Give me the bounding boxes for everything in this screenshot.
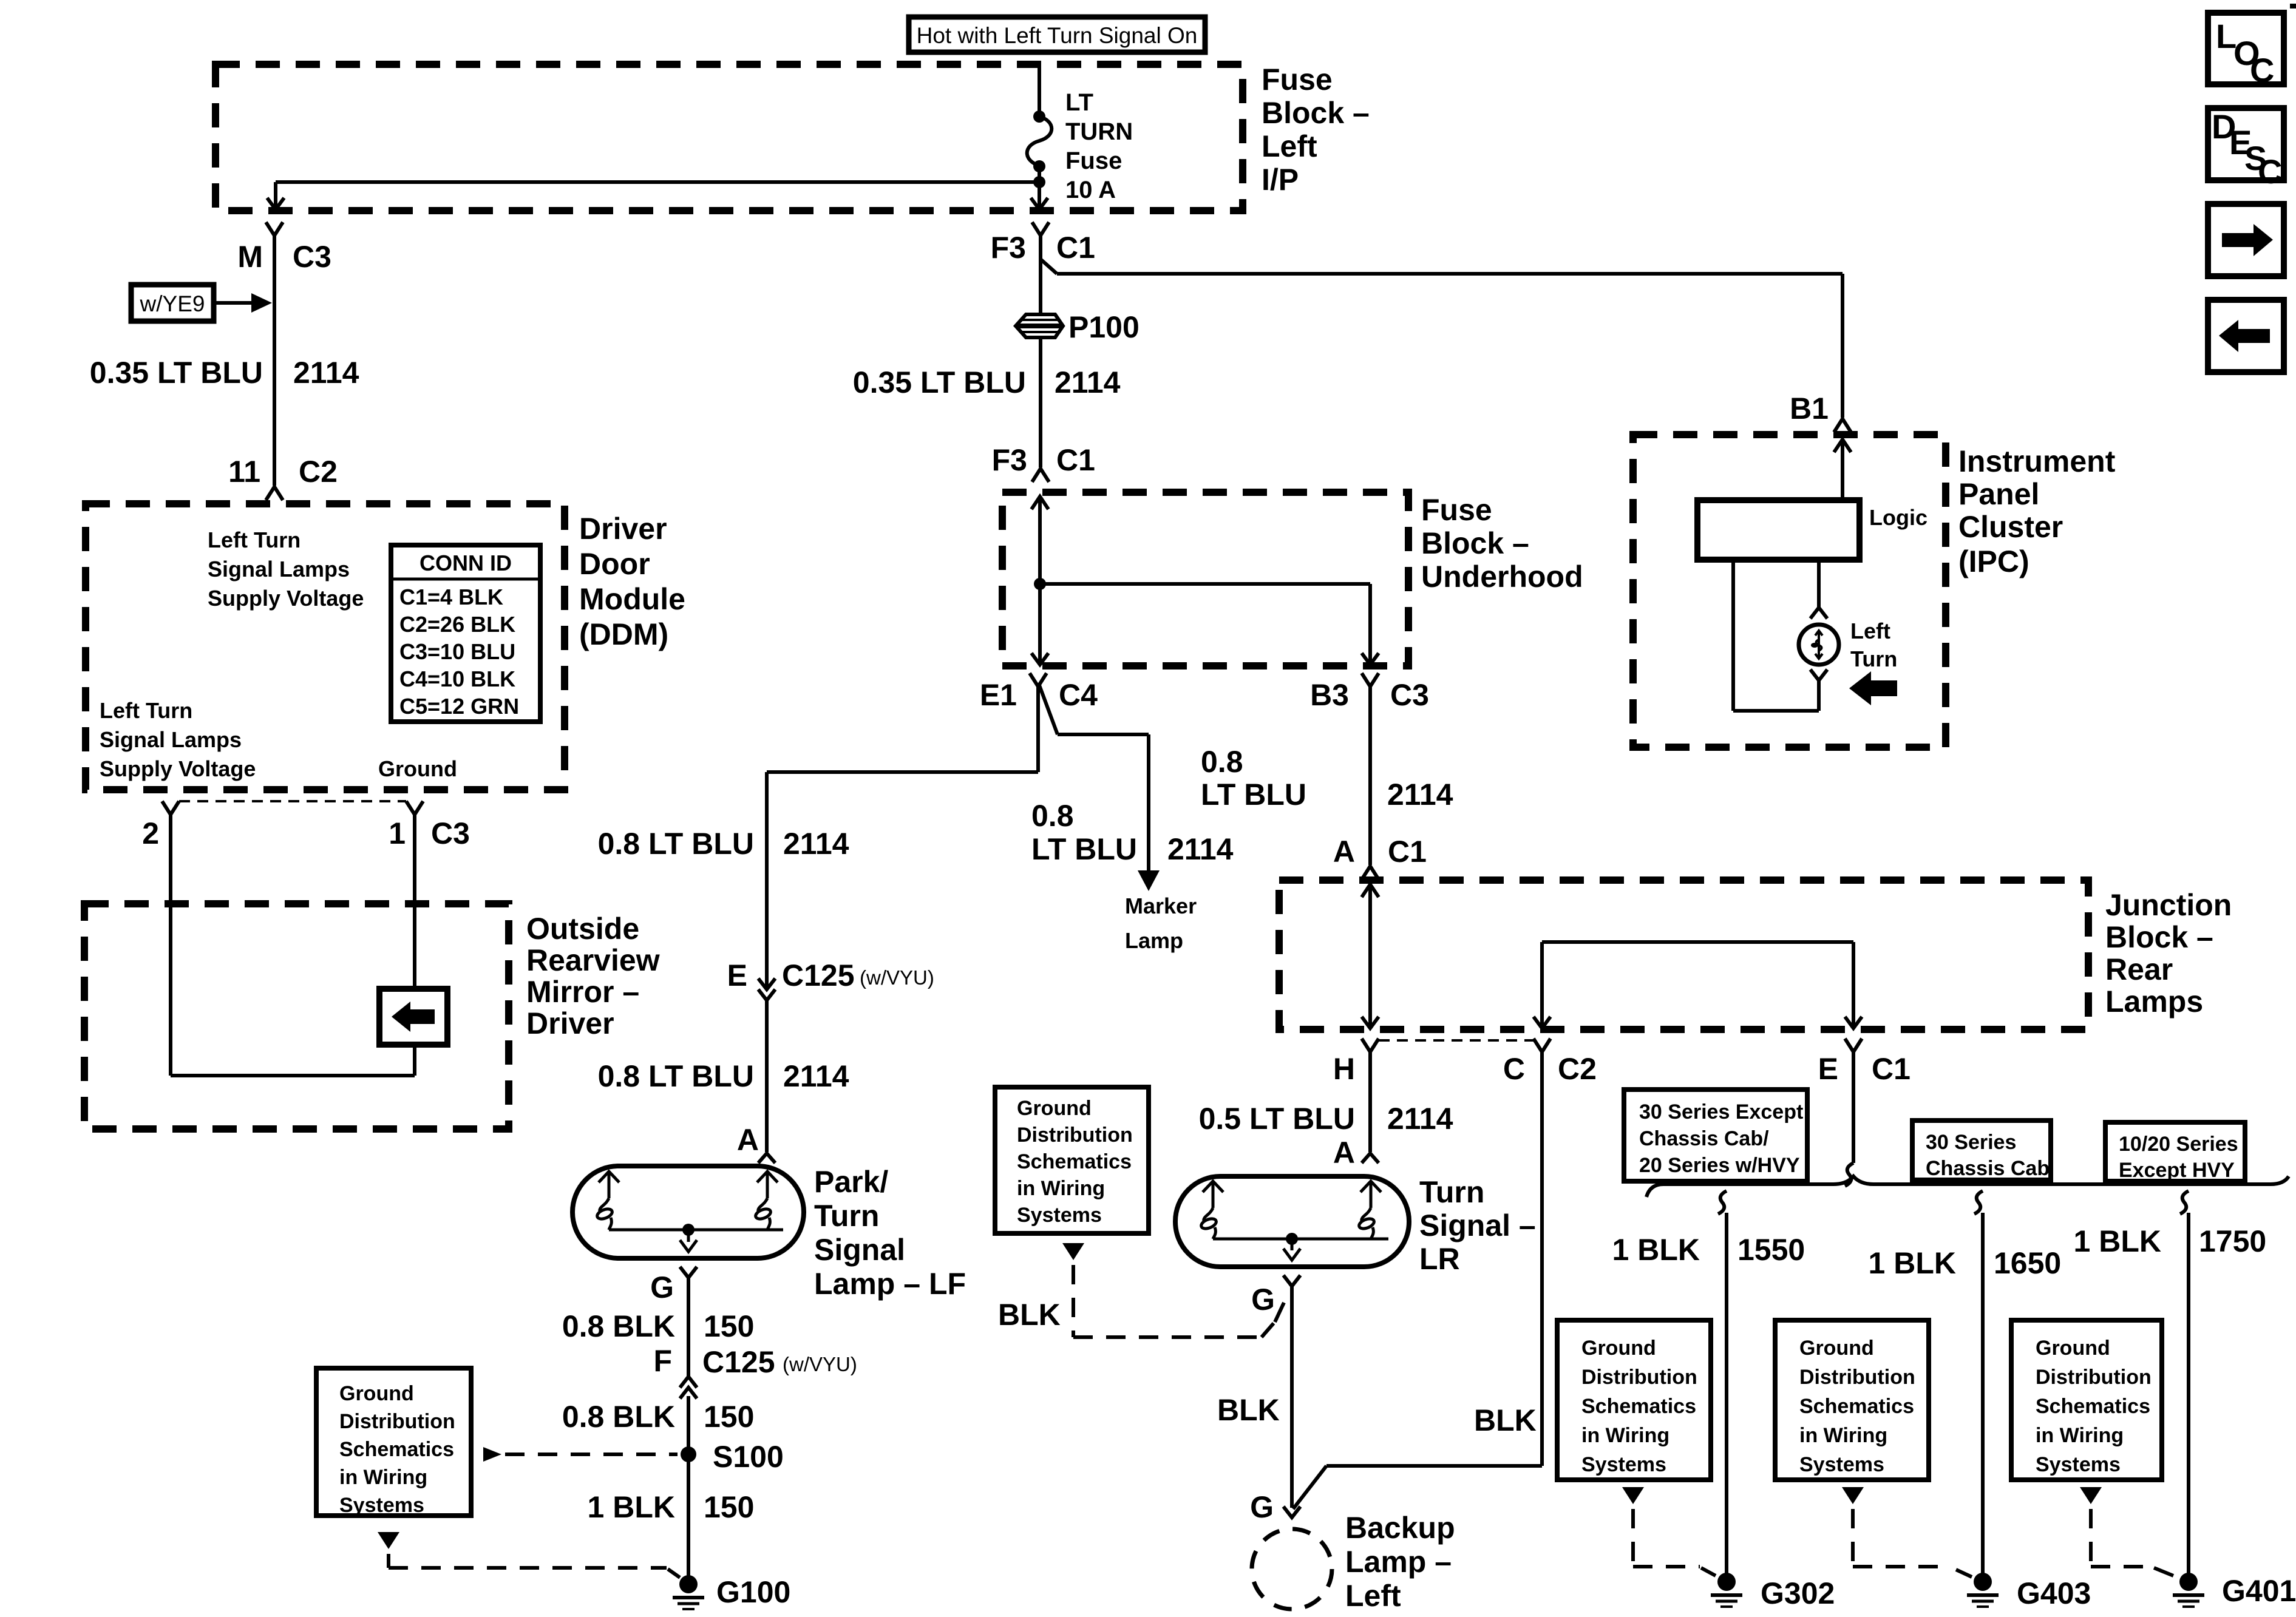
svg-text:Systems: Systems: [339, 1494, 424, 1517]
svg-text:Chassis Cab/: Chassis Cab/: [1639, 1127, 1769, 1150]
svg-text:C1: C1: [1388, 835, 1427, 869]
wire label 0.8 LT BLU 2114 (LF branch upper): [598, 827, 849, 861]
svg-text:Underhood: Underhood: [1421, 560, 1583, 594]
splice S100: [681, 1440, 784, 1474]
label Turn Signal - LR: [1419, 1175, 1536, 1276]
connector A at LF lamp: [737, 1123, 775, 1163]
wire branch to marker lamp: [1039, 685, 1149, 870]
svg-text:C125: C125: [702, 1345, 775, 1379]
svg-text:S100: S100: [713, 1440, 784, 1474]
park/turn signal lamp LF: [572, 1166, 804, 1258]
backup lamp dashed circle: [1252, 1529, 1332, 1609]
svg-text:Distribution: Distribution: [1581, 1366, 1697, 1389]
svg-text:Chassis Cab: Chassis Cab: [1926, 1157, 2050, 1180]
wire from Hot box into fuse: [1038, 64, 1041, 115]
connector F3 C1 below fuse block: [991, 222, 1095, 265]
svg-text:1: 1: [389, 816, 406, 850]
svg-text:10 A: 10 A: [1065, 177, 1116, 203]
svg-text:Rear: Rear: [2105, 952, 2173, 986]
svg-text:150: 150: [704, 1490, 754, 1524]
svg-text:C2=26 BLK: C2=26 BLK: [399, 612, 515, 637]
fuse block underhood dashed box: [1002, 492, 1408, 666]
svg-text:Signal Lamps: Signal Lamps: [100, 727, 242, 752]
thin dashed link between connectors 2 and 1: [179, 800, 406, 802]
connector E C125 (w/VYU): [727, 958, 934, 1000]
driver door module dashed box: [86, 504, 565, 790]
connector H: [1333, 1039, 1379, 1086]
svg-text:Distribution: Distribution: [339, 1410, 455, 1433]
svg-text:Marker: Marker: [1125, 893, 1197, 918]
ground distribution ref box (G403): [1775, 1320, 1929, 1480]
connector G below LF lamp: [650, 1267, 697, 1304]
IPC left turn arrow icon: [1849, 671, 1897, 705]
svg-text:G100: G100: [716, 1575, 790, 1609]
wire label BLK (LR ground): [1217, 1393, 1280, 1427]
wire label BLK (C2 ground): [1474, 1403, 1537, 1437]
svg-text:in Wiring: in Wiring: [1799, 1424, 1887, 1447]
svg-text:Turn: Turn: [814, 1199, 879, 1233]
svg-text:(DDM): (DDM): [579, 617, 668, 651]
svg-text:G: G: [1250, 1490, 1274, 1524]
svg-text:0.35 LT BLU: 0.35 LT BLU: [853, 365, 1026, 399]
svg-text:Except HVY: Except HVY: [2119, 1159, 2235, 1182]
svg-text:C3: C3: [1390, 678, 1429, 712]
wire 1 C3 down through mirror: [413, 815, 416, 1076]
label Junction Block - Rear Lamps: [2105, 888, 2232, 1019]
svg-text:LT: LT: [1065, 89, 1093, 116]
wire label BLK (ref link): [998, 1298, 1061, 1332]
svg-text:Door: Door: [579, 547, 650, 581]
svg-text:Junction: Junction: [2105, 888, 2232, 922]
svg-text:Systems: Systems: [1799, 1453, 1884, 1476]
connector C C2: [1503, 1039, 1597, 1086]
sidebar LOC box: [2208, 13, 2284, 89]
svg-text:C: C: [2258, 152, 2282, 191]
svg-text:Backup: Backup: [1345, 1511, 1455, 1545]
connector B3 C3: [1310, 673, 1429, 712]
label Fuse Block - Underhood: [1421, 493, 1583, 594]
svg-text:Distribution: Distribution: [1799, 1366, 1915, 1389]
connector E1 C4: [980, 673, 1098, 712]
ground G403: [1967, 1573, 2091, 1610]
svg-text:Lamp: Lamp: [1125, 928, 1183, 953]
arrow to S100: [483, 1447, 678, 1462]
svg-text:B3: B3: [1310, 678, 1349, 712]
svg-text:BLK: BLK: [1474, 1403, 1537, 1437]
logic box U1: [1697, 500, 1927, 560]
svg-text:in Wiring: in Wiring: [1017, 1177, 1105, 1200]
arrow below G403 ref box: [1842, 1487, 1972, 1577]
svg-text:C3: C3: [293, 240, 331, 274]
svg-text:B1: B1: [1790, 392, 1829, 425]
svg-text:Ground: Ground: [378, 756, 457, 781]
CONN ID table: [391, 545, 540, 722]
svg-text:F3: F3: [991, 231, 1026, 265]
svg-text:F3: F3: [992, 443, 1027, 477]
ground distribution ref box (G401): [2011, 1320, 2162, 1480]
svg-text:Schematics: Schematics: [1581, 1395, 1696, 1418]
instrument panel cluster dashed box: [1633, 435, 1946, 747]
svg-text:C1: C1: [1872, 1052, 1911, 1086]
svg-text:Left: Left: [1262, 129, 1317, 163]
svg-text:2114: 2114: [1387, 778, 1453, 812]
svg-text:LT BLU: LT BLU: [1201, 778, 1306, 812]
svg-text:0.8 LT BLU: 0.8 LT BLU: [598, 1059, 754, 1093]
wire E1 C4 down, left, down to E C125: [767, 686, 1038, 988]
svg-text:CONN ID: CONN ID: [419, 551, 512, 575]
svg-text:C2: C2: [1558, 1052, 1597, 1086]
wire label 0.8 BLK 150 (lower): [562, 1400, 755, 1434]
ground G100: [673, 1575, 790, 1609]
ground G401: [2173, 1573, 2296, 1608]
svg-text:BLK: BLK: [998, 1298, 1061, 1332]
svg-text:I/P: I/P: [1262, 163, 1299, 197]
svg-text:30 Series Except: 30 Series Except: [1639, 1100, 1803, 1124]
svg-text:Ground: Ground: [339, 1382, 414, 1405]
svg-text:Panel: Panel: [1958, 477, 2039, 511]
svg-text:Fuse: Fuse: [1421, 493, 1492, 527]
sidebar right arrow box: [2208, 204, 2284, 276]
connector F3 C1 above underhood fuse block: [992, 443, 1095, 482]
wire label 1 BLK 150: [588, 1490, 755, 1524]
svg-text:G: G: [650, 1270, 674, 1304]
svg-text:Instrument: Instrument: [1958, 444, 2116, 478]
fuse block left I/P dashed box: [216, 64, 1243, 211]
svg-text:2114: 2114: [783, 827, 849, 861]
svg-text:Ground: Ground: [1581, 1337, 1656, 1360]
svg-text:Cluster: Cluster: [1958, 510, 2063, 544]
label Outside Rearview Mirror - Driver: [526, 912, 660, 1040]
svg-text:20 Series w/HVY: 20 Series w/HVY: [1639, 1154, 1800, 1177]
svg-text:w/YE9: w/YE9: [140, 291, 205, 316]
wire label 0.8 LT BLU 2114 (marker branch): [1031, 799, 1234, 866]
wire label 1 BLK 1650: [1869, 1246, 2062, 1280]
svg-text:1750: 1750: [2199, 1224, 2266, 1258]
svg-text:Block –: Block –: [1421, 526, 1529, 560]
svg-text:Left Turn: Left Turn: [208, 527, 301, 552]
wire B3 C3 down to A C1: [1368, 686, 1372, 865]
DDM pin label upper: Left Turn Signal Lamps Supply Voltage: [208, 527, 364, 611]
svg-text:Schematics: Schematics: [1017, 1150, 1132, 1173]
svg-text:2114: 2114: [1167, 832, 1234, 866]
svg-text:Rearview: Rearview: [526, 943, 660, 977]
svg-text:H: H: [1333, 1052, 1355, 1086]
svg-text:1 BLK: 1 BLK: [1612, 1233, 1700, 1267]
svg-text:2114: 2114: [1055, 365, 1121, 399]
svg-text:in Wiring: in Wiring: [2036, 1424, 2124, 1447]
variant label box 10/20 Series Except HVY: [2105, 1122, 2245, 1182]
svg-text:Signal Lamps: Signal Lamps: [208, 557, 350, 581]
svg-text:150: 150: [704, 1400, 754, 1434]
svg-text:M: M: [237, 240, 263, 274]
svg-text:Ground: Ground: [1799, 1337, 1874, 1360]
svg-text:BLK: BLK: [1217, 1393, 1280, 1427]
wire fuse output to left (to M C3): [267, 182, 1039, 209]
svg-text:E: E: [727, 958, 747, 992]
label Driver Door Module (DDM): [579, 512, 685, 651]
wire label 0.8 LT BLU 2114 (LF branch lower): [598, 1059, 849, 1093]
marker lamp off-page arrow: [1125, 870, 1197, 953]
wire H down to LR lamp: [1368, 1052, 1372, 1152]
wire to G401: [2180, 1191, 2189, 1573]
svg-text:TURN: TURN: [1065, 118, 1133, 145]
svg-text:P100: P100: [1068, 310, 1140, 344]
connector B1 at IPC: [1790, 392, 1851, 432]
svg-text:G403: G403: [2017, 1576, 2091, 1610]
svg-text:Lamp –: Lamp –: [1345, 1545, 1452, 1579]
svg-text:Outside: Outside: [526, 912, 639, 946]
left turn indicator lamp: [1799, 625, 1839, 665]
svg-text:Driver: Driver: [579, 512, 667, 546]
svg-text:Park/: Park/: [814, 1165, 888, 1199]
fuse LT TURN Fuse 10 A: [1027, 89, 1133, 207]
svg-text:10/20 Series: 10/20 Series: [2119, 1133, 2238, 1156]
brace bus line: [1646, 1176, 2289, 1197]
svg-text:C4=10 BLK: C4=10 BLK: [399, 666, 515, 691]
arrow into box bottom at F3: [1031, 198, 1048, 209]
svg-text:1650: 1650: [1994, 1246, 2061, 1280]
wire label 0.35 LT BLU 2114 (center): [853, 365, 1121, 399]
svg-text:Distribution: Distribution: [1017, 1124, 1133, 1147]
svg-text:G302: G302: [1761, 1576, 1835, 1610]
svg-text:Block –: Block –: [1262, 96, 1370, 130]
svg-text:(w/VYU): (w/VYU): [783, 1353, 857, 1375]
connector A C1 at junction block: [1333, 835, 1427, 880]
svg-text:Turn: Turn: [1419, 1175, 1484, 1209]
svg-text:in Wiring: in Wiring: [1581, 1424, 1669, 1447]
wire label 0.8 BLK 150 (upper): [562, 1309, 755, 1343]
connector M C3: [237, 222, 331, 274]
svg-text:Schematics: Schematics: [339, 1438, 454, 1461]
variant label box 30 Series Chassis Cab: [1912, 1120, 2051, 1180]
svg-text:A: A: [737, 1123, 759, 1157]
wire branch to IPC B1: [1041, 259, 1843, 418]
svg-text:Signal –: Signal –: [1419, 1209, 1536, 1242]
svg-text:C125: C125: [782, 958, 855, 992]
svg-text:G: G: [1251, 1283, 1275, 1317]
svg-text:2: 2: [142, 816, 159, 850]
svg-text:Distribution: Distribution: [2036, 1366, 2152, 1389]
junction block internal wires: [1362, 884, 1862, 1028]
w/YE9 reference box: [131, 285, 272, 321]
svg-text:Systems: Systems: [2036, 1453, 2121, 1476]
label Backup Lamp - Left: [1345, 1511, 1455, 1613]
label Park/Turn Signal Lamp - LF: [814, 1165, 966, 1301]
svg-text:in Wiring: in Wiring: [339, 1466, 427, 1489]
svg-text:Logic: Logic: [1869, 505, 1927, 530]
svg-text:0.8 BLK: 0.8 BLK: [562, 1400, 675, 1434]
svg-text:0.5 LT BLU: 0.5 LT BLU: [1199, 1102, 1355, 1136]
connector E C1: [1818, 1039, 1911, 1086]
svg-text:Driver: Driver: [526, 1006, 614, 1040]
svg-text:2114: 2114: [1387, 1102, 1453, 1136]
svg-text:Systems: Systems: [1017, 1204, 1102, 1227]
header box "Hot with Left Turn Signal On": [909, 17, 1205, 52]
svg-text:0.8: 0.8: [1031, 799, 1074, 833]
wire label 0.35 LT BLU 2114 (left): [90, 356, 359, 390]
svg-text:C5=12 GRN: C5=12 GRN: [399, 694, 519, 719]
svg-text:11: 11: [228, 455, 260, 489]
svg-text:C3: C3: [431, 816, 470, 850]
svg-text:C: C: [2250, 51, 2274, 89]
svg-text:Schematics: Schematics: [1799, 1395, 1914, 1418]
underhood internal bus: [1031, 497, 1379, 665]
svg-text:Turn: Turn: [1850, 646, 1897, 671]
connector F C125 (w/VYU): [653, 1344, 857, 1398]
svg-text:Left Turn: Left Turn: [100, 698, 192, 723]
svg-text:C1: C1: [1056, 443, 1095, 477]
svg-text:Systems: Systems: [1581, 1453, 1666, 1476]
svg-text:Signal: Signal: [814, 1233, 905, 1267]
indicator lamp socket chevrons: [1810, 608, 1827, 680]
wire label 0.8 LT BLU 2114 (B3 branch): [1201, 745, 1453, 812]
DDM pin label Ground: [378, 756, 457, 781]
page corner mark: [2290, 4, 2296, 8]
svg-text:0.8: 0.8: [1201, 745, 1243, 779]
turn signal lamp LR: [1175, 1176, 1409, 1267]
svg-text:(w/VYU): (w/VYU): [860, 966, 934, 989]
svg-text:Hot with Left Turn Signal On: Hot with Left Turn Signal On: [917, 23, 1198, 48]
svg-text:A: A: [1333, 835, 1355, 869]
sidebar left arrow box: [2208, 300, 2284, 372]
svg-text:0.8 BLK: 0.8 BLK: [562, 1309, 675, 1343]
svg-text:1 BLK: 1 BLK: [2074, 1224, 2161, 1258]
arrow below G401 ref box: [2080, 1487, 2173, 1576]
svg-text:G401: G401: [2222, 1574, 2296, 1608]
svg-text:30 Series: 30 Series: [1926, 1131, 2016, 1154]
wire E C1 down to brace: [1845, 1052, 1853, 1186]
DDM pin label lower: Left Turn Signal Lamps Supply Voltage: [100, 698, 256, 781]
svg-text:Ground: Ground: [2036, 1337, 2110, 1360]
ground distribution ref box (G302): [1557, 1320, 1711, 1480]
wire C125 down to LF lamp: [765, 1000, 769, 1152]
svg-text:A: A: [1333, 1136, 1355, 1170]
svg-text:Supply Voltage: Supply Voltage: [208, 586, 364, 611]
svg-text:0.35 LT BLU: 0.35 LT BLU: [90, 356, 263, 390]
svg-text:C4: C4: [1059, 678, 1098, 712]
svg-text:(IPC): (IPC): [1958, 544, 2029, 578]
junction block rear lamps dashed box: [1279, 880, 2088, 1029]
wire M C3 down to 11 C2: [273, 236, 276, 486]
IPC internal loop wiring: [1733, 560, 1819, 711]
variant label box 30 Series Except Chassis Cab / 20 Series w/HVY: [1624, 1090, 1807, 1181]
svg-text:0.8 LT BLU: 0.8 LT BLU: [598, 827, 754, 861]
label Left Turn: [1850, 619, 1897, 671]
svg-text:C: C: [1503, 1052, 1525, 1086]
wire to G403: [1974, 1191, 1983, 1573]
svg-text:1550: 1550: [1737, 1233, 1805, 1267]
wire C125 down to S100: [687, 1396, 690, 1576]
svg-text:Fuse: Fuse: [1262, 63, 1333, 97]
outside rearview mirror dashed box: [84, 904, 509, 1129]
mirror turn arrow box: [379, 989, 447, 1045]
wire F3 C1 down to P100: [1039, 236, 1042, 314]
grommet P100: [1016, 310, 1140, 344]
wire label 0.5 LT BLU 2114: [1199, 1102, 1453, 1136]
connector 1 C3 below DDM: [389, 801, 470, 850]
wire 2 down and across: [171, 815, 415, 1076]
svg-text:Ground: Ground: [1017, 1097, 1092, 1120]
svg-text:C2: C2: [299, 455, 338, 489]
connector 2 below DDM: [142, 801, 179, 850]
wire to G302: [1718, 1191, 1727, 1573]
wire G down to backup lamp: [1290, 1286, 1294, 1508]
arrow below box to G100: [378, 1532, 680, 1578]
svg-text:150: 150: [704, 1309, 754, 1343]
svg-text:2114: 2114: [293, 356, 359, 390]
svg-text:Fuse: Fuse: [1065, 147, 1122, 174]
connector 11 C2: [228, 455, 338, 500]
svg-text:C1: C1: [1056, 231, 1095, 265]
wire label 1 BLK 1750: [2074, 1224, 2267, 1258]
connector A at LR lamp: [1333, 1136, 1379, 1170]
connector G at backup lamp: [1250, 1490, 1300, 1524]
arrow below G302 ref box: [1622, 1487, 1716, 1576]
ground G302: [1711, 1573, 1835, 1610]
svg-text:F: F: [653, 1344, 672, 1378]
wire C C2 down-left to backup lamp G: [1293, 1052, 1542, 1509]
wire G down to F C125: [687, 1278, 690, 1377]
connector G/ below LR lamp: [1251, 1275, 1300, 1322]
wire P100 down: [1039, 337, 1042, 467]
svg-text:E: E: [1818, 1052, 1838, 1086]
svg-text:C3=10 BLU: C3=10 BLU: [399, 639, 515, 664]
svg-text:Supply Voltage: Supply Voltage: [100, 756, 256, 781]
svg-text:LT BLU: LT BLU: [1031, 832, 1137, 866]
arrow below LR ref box: [1062, 1243, 1274, 1337]
wire label 1 BLK 1550: [1612, 1233, 1805, 1267]
svg-text:Module: Module: [579, 582, 685, 616]
svg-text:Lamp – LF: Lamp – LF: [814, 1267, 966, 1301]
sidebar DESC box: [2208, 107, 2284, 191]
svg-text:C1=4 BLK: C1=4 BLK: [399, 585, 503, 609]
svg-text:Lamps: Lamps: [2105, 985, 2203, 1019]
svg-text:Left: Left: [1345, 1579, 1401, 1613]
IPC internal wire from B1 to logic: [1834, 439, 1851, 500]
junction dot at fuse output: [1033, 176, 1045, 188]
svg-text:Block –: Block –: [2105, 920, 2213, 954]
svg-text:1 BLK: 1 BLK: [588, 1490, 675, 1524]
label Instrument Panel Cluster (IPC): [1958, 444, 2116, 578]
svg-text:Schematics: Schematics: [2036, 1395, 2150, 1418]
ground distribution ref box (S100): [316, 1368, 471, 1517]
svg-text:1 BLK: 1 BLK: [1869, 1246, 1956, 1280]
svg-text:2114: 2114: [783, 1059, 849, 1093]
label Fuse Block - Left I/P: [1262, 63, 1370, 197]
ground distribution ref box (LR): [995, 1087, 1149, 1233]
svg-text:E1: E1: [980, 678, 1017, 712]
svg-text:Mirror –: Mirror –: [526, 975, 639, 1009]
svg-text:Left: Left: [1850, 619, 1890, 643]
svg-text:LR: LR: [1419, 1242, 1460, 1276]
thin dashed link H to C: [1379, 1039, 1533, 1042]
